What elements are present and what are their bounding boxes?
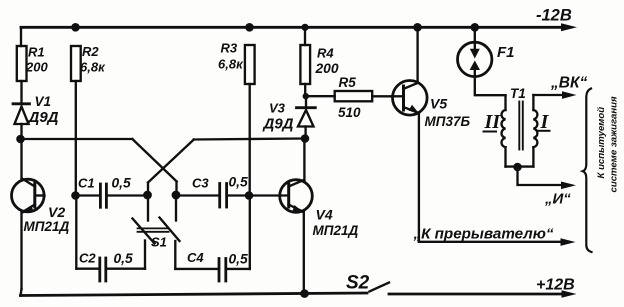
wire V4 collector (303, 139, 305, 181)
resistor R1 (17, 46, 27, 81)
node V4 collector junction (301, 134, 310, 143)
svg-text:МП37Б: МП37Б (425, 114, 471, 129)
T1 winding I (532, 95, 534, 110)
node V4 emitter on rail (300, 289, 309, 298)
capacitor C4 (175, 268, 217, 270)
svg-text:C2: C2 (79, 251, 96, 266)
node R2 top (71, 23, 80, 32)
capacitor C1 (76, 194, 100, 196)
brace (583, 89, 592, 253)
wire V2 collector (20, 139, 22, 180)
wire R1 to V1 (20, 81, 22, 104)
wire R5 to V5 base (372, 95, 392, 97)
arrowhead K (561, 182, 576, 190)
wire bottom +12V rail left (21, 293, 368, 296)
node V4 base (245, 191, 254, 200)
T1 winding II (504, 95, 506, 110)
svg-text:„К прерывателю“: „К прерывателю“ (413, 226, 554, 243)
svg-text:V1: V1 (35, 94, 52, 109)
node V5 collector on rail (413, 23, 422, 32)
wire bottom +12V rail right (389, 293, 563, 296)
wire cross diagonal 1 (132, 139, 176, 195)
svg-text:-12В: -12В (536, 7, 572, 25)
wire T1 bottoms join (506, 165, 534, 167)
transistor V4 (249, 194, 289, 196)
svg-text:Д9Д: Д9Д (262, 116, 294, 133)
node V2 collector junction (16, 135, 25, 144)
resistor R2 (71, 46, 81, 81)
wire R3 to V4 base node (249, 84, 251, 196)
svg-text:К испытуемой: К испытуемой (596, 107, 607, 179)
wire V4 collector to cross (194, 139, 305, 140)
node B (172, 191, 181, 200)
svg-text:S2: S2 (346, 273, 370, 294)
svg-text:C3: C3 (192, 176, 209, 191)
svg-text:+12В: +12В (536, 277, 575, 294)
arrowhead VK (562, 91, 577, 99)
transistor V5 (393, 81, 428, 116)
svg-text:„ВК“: „ВК“ (550, 75, 587, 92)
switch S2 (370, 283, 390, 292)
wire R2 to base node (75, 81, 77, 196)
transistor V2 (12, 179, 45, 212)
svg-text:V4: V4 (316, 207, 333, 223)
arrowhead K preryvatelyu (561, 238, 576, 246)
wire cross diagonal 2 (148, 140, 194, 196)
svg-text:6,8к: 6,8к (80, 60, 106, 75)
node R4 top (301, 24, 308, 31)
T1 core (518, 102, 520, 150)
svg-text:системе зажигания: системе зажигания (609, 96, 620, 193)
svg-text:R2: R2 (82, 44, 99, 59)
node R3 top (245, 23, 254, 32)
svg-text:200: 200 (315, 61, 339, 76)
resistor R5 (335, 91, 373, 101)
node V2 base (71, 191, 80, 200)
wire left column top (20, 27, 22, 46)
wire V4 base node to C4 (249, 196, 251, 269)
resistor R3 (245, 45, 255, 84)
svg-text:T1: T1 (510, 86, 526, 101)
svg-text:0,5: 0,5 (229, 252, 249, 267)
wire V5 collector (416, 27, 418, 83)
svg-text:II: II (484, 111, 502, 133)
wire VK output (533, 94, 561, 96)
svg-text:R1: R1 (28, 45, 45, 60)
svg-text:Д9Д: Д9Д (27, 109, 59, 126)
svg-text:V3: V3 (269, 101, 286, 116)
wire V5 emitter down (418, 113, 420, 242)
svg-text:C4: C4 (187, 250, 204, 265)
svg-text:0,5: 0,5 (229, 175, 249, 190)
svg-text:V5: V5 (430, 96, 447, 112)
wire V2 collector to cross (21, 138, 133, 140)
capacitor C3 (176, 194, 219, 196)
wire V4 emitter (303, 212, 305, 294)
svg-text:200: 200 (25, 60, 48, 75)
svg-text:S1: S1 (151, 235, 167, 250)
svg-text:C1: C1 (78, 176, 95, 191)
svg-text:R5: R5 (339, 75, 357, 90)
wire F1 to T1 (475, 77, 506, 96)
node T1 bottom junction (513, 163, 522, 172)
svg-text:МП21Д: МП21Д (24, 219, 70, 234)
node F1 top (471, 23, 480, 32)
wire K output (518, 167, 563, 185)
svg-text:510: 510 (338, 105, 361, 120)
resistor R4 (304, 27, 306, 45)
diode V1 (13, 102, 30, 105)
svg-text:F1: F1 (497, 44, 515, 61)
wire K preryvatelyu (419, 241, 560, 243)
arrowhead bottom rail (562, 290, 577, 298)
wire top -12V rail (21, 26, 563, 29)
spark gap F1 (474, 27, 476, 42)
node R4/V3/R5 junction (303, 93, 309, 99)
svg-text:„И“: „И“ (544, 191, 571, 208)
svg-text:R4: R4 (317, 45, 334, 60)
svg-text:I: I (540, 111, 550, 133)
svg-text:0,5: 0,5 (112, 176, 132, 191)
wire V1 to node (20, 124, 22, 139)
wire base node to C2 (75, 196, 77, 269)
svg-text:6,8к: 6,8к (218, 57, 244, 72)
arrowhead top rail (561, 23, 577, 31)
capacitor C2 (76, 268, 98, 270)
svg-text:R3: R3 (221, 41, 238, 56)
switch S1 (147, 195, 149, 221)
svg-text:МП21Д: МП21Д (313, 223, 359, 238)
wire R4 bottom (304, 84, 306, 96)
wire V2 emitter (21, 212, 22, 296)
diode V3 (305, 96, 307, 107)
node A (143, 191, 152, 200)
svg-text:0,5: 0,5 (114, 251, 134, 266)
svg-text:V2: V2 (48, 204, 65, 220)
